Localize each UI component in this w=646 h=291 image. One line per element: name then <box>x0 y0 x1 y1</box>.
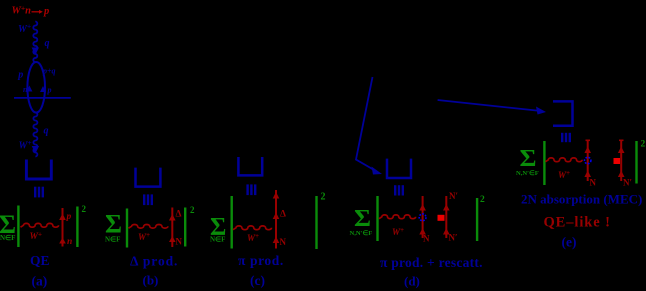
arrowheads on nucleon line b <box>169 214 176 221</box>
svg-text:p: p <box>66 212 72 222</box>
nucleon line c <box>275 190 277 249</box>
svg-text:Σ: Σ <box>354 205 371 232</box>
nucleon line 2 d <box>445 196 447 238</box>
equiv symbol b <box>143 194 153 205</box>
svg-text:q: q <box>44 126 49 137</box>
svg-text:p: p <box>47 86 52 95</box>
bracket d <box>387 159 411 178</box>
pion vertex circle d <box>419 214 426 221</box>
arrowheads nucleon line 2 d <box>443 204 450 211</box>
pion absorption square d <box>438 215 445 221</box>
svg-text:(a): (a) <box>32 274 48 289</box>
pion absorption square e <box>614 158 621 164</box>
wire: incoming W boson wavy line (top) <box>33 22 37 62</box>
annotation arrow 2 <box>438 100 541 111</box>
equiv symbol e <box>561 133 571 142</box>
bracket b <box>136 168 161 187</box>
arrowheads nucleon line 1 e <box>584 147 591 154</box>
svg-text:2: 2 <box>480 195 485 205</box>
svg-text:N,N′∈F: N,N′∈F <box>350 229 373 237</box>
equiv symbol d <box>394 185 404 195</box>
bracket a <box>26 160 51 180</box>
left matrix bar d <box>376 196 378 241</box>
equiv symbol a <box>34 187 44 198</box>
svg-text:p: p <box>17 70 23 81</box>
svg-text:N: N <box>176 237 183 247</box>
svg-text:N: N <box>423 234 430 244</box>
right matrix bar c <box>315 196 317 249</box>
svg-text:Σ: Σ <box>105 210 122 239</box>
svg-text:π prod.: π prod. <box>238 253 284 268</box>
svg-text:N,N′∈F: N,N′∈F <box>516 169 539 177</box>
svg-text:2: 2 <box>321 192 326 203</box>
left matrix bar c <box>231 196 233 249</box>
wavy W line d <box>379 215 416 219</box>
pion vertex circle e <box>585 157 591 163</box>
arrow on top W line <box>32 48 39 56</box>
svg-text:Δ: Δ <box>280 210 286 220</box>
nucleon line 2 e <box>620 140 622 182</box>
svg-text:Δ: Δ <box>176 209 182 219</box>
wavy W line b <box>129 225 168 229</box>
left matrix bar a <box>17 206 19 248</box>
svg-text:π prod. + rescatt.: π prod. + rescatt. <box>380 255 483 270</box>
svg-text:N′: N′ <box>449 191 458 201</box>
svg-text:N∈F: N∈F <box>0 234 15 242</box>
svg-text:N′: N′ <box>449 233 458 243</box>
right matrix bar b <box>184 208 186 247</box>
svg-text:2N absorption (MEC): 2N absorption (MEC) <box>521 192 642 207</box>
svg-text:2: 2 <box>641 140 646 150</box>
arrowheads nucleon line 2 e <box>618 147 625 154</box>
svg-text:2: 2 <box>190 205 195 215</box>
equiv symbol c <box>246 184 256 195</box>
nucleon line b <box>171 208 173 248</box>
svg-text:N∈F: N∈F <box>105 236 120 244</box>
wavy W line e <box>546 158 583 162</box>
arrow on loop left branch <box>26 86 32 92</box>
right matrix bar e <box>635 141 637 184</box>
svg-text:p: p <box>43 6 49 17</box>
svg-text:QE: QE <box>30 253 50 268</box>
arrowheads on nucleon line a <box>59 214 66 221</box>
svg-text:Δ prod.: Δ prod. <box>130 254 178 269</box>
svg-text:n: n <box>67 237 72 247</box>
bracket c <box>238 157 262 175</box>
arrowheads on nucleon line c <box>273 192 280 199</box>
cut line through loop <box>14 97 71 99</box>
svg-text:(c): (c) <box>250 273 265 288</box>
svg-text:N: N <box>280 237 287 247</box>
wavy W line a <box>21 223 59 227</box>
svg-text:p+q: p+q <box>42 67 56 76</box>
svg-text:N∈F: N∈F <box>210 236 225 244</box>
svg-text:q: q <box>45 38 50 49</box>
svg-text:(b): (b) <box>143 273 159 288</box>
svg-text:2: 2 <box>82 204 87 214</box>
nucleon line 1 d <box>422 196 424 238</box>
svg-text:N: N <box>590 178 597 188</box>
arrow on loop right branch <box>40 86 46 92</box>
nucleon loop (particle-hole bubble) <box>27 62 45 113</box>
svg-text:(d): (d) <box>404 274 420 289</box>
right matrix bar d <box>476 198 478 241</box>
annotation arrow 1 <box>356 77 375 171</box>
nucleon line a <box>62 208 64 247</box>
arrowheads nucleon line 1 d <box>419 204 426 211</box>
svg-text:Σ: Σ <box>520 145 537 172</box>
svg-text:n: n <box>23 85 28 94</box>
right matrix bar a <box>76 207 78 248</box>
wire: outgoing W boson wavy line (bottom) <box>33 113 37 157</box>
bracket e (open left) <box>553 101 573 125</box>
svg-text:N′: N′ <box>623 178 632 188</box>
left matrix bar e <box>543 141 545 185</box>
svg-text:(e): (e) <box>562 235 577 250</box>
arrow on bottom W line <box>32 146 39 154</box>
wavy W line c <box>233 226 272 230</box>
svg-text:QE–like !: QE–like ! <box>544 215 611 231</box>
nucleon line 1 e <box>587 140 589 182</box>
left matrix bar b <box>126 209 128 248</box>
